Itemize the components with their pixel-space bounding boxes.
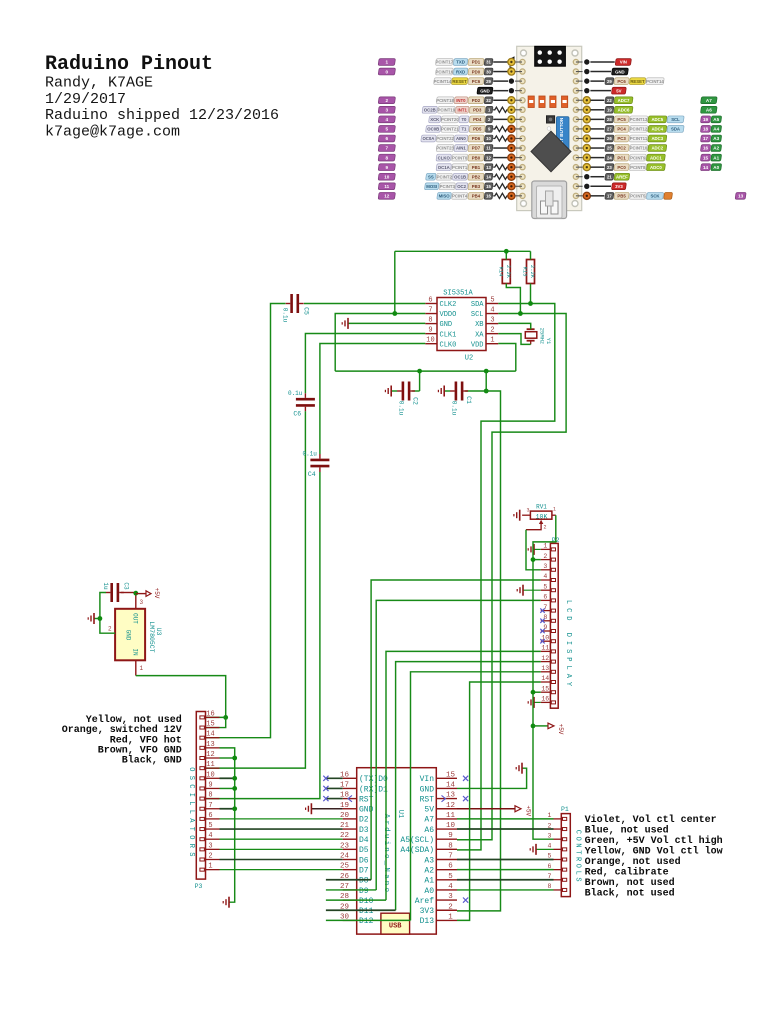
svg-text:15: 15: [206, 721, 214, 729]
svg-text:PC5: PC5: [617, 117, 626, 122]
svg-text:A0: A0: [713, 165, 719, 170]
pinout right row 13: [576, 185, 583, 187]
svg-text:USB: USB: [389, 923, 402, 931]
no-connect U1 pin 18: [326, 798, 343, 800]
svg-text:VDDO: VDDO: [440, 311, 457, 319]
svg-text:C4: C4: [308, 471, 316, 478]
svg-text:2.2K: 2.2K: [529, 265, 536, 279]
svg-text:3: 3: [448, 893, 453, 901]
svg-text:XA: XA: [475, 331, 484, 339]
capacitor C3 1u: [110, 583, 113, 602]
svg-text:14: 14: [206, 731, 214, 739]
wire P3 pin9 link: [220, 787, 235, 789]
pinout left pin number column: [378, 59, 395, 66]
svg-text:RST: RST: [420, 795, 435, 804]
svg-text:TXD: TXD: [456, 60, 465, 65]
svg-text:INT0: INT0: [456, 98, 466, 103]
svg-text:2: 2: [448, 903, 453, 911]
U1 pin 1 D13: [436, 919, 457, 921]
wire U2 VDD pin1 to rail: [498, 344, 516, 372]
pinout right row 7: [576, 128, 583, 130]
svg-text:25MHz: 25MHz: [539, 328, 546, 345]
no-connect U1 pin 16: [326, 777, 343, 779]
U1 pin 21 D3: [343, 828, 357, 830]
P3 pin 6: [206, 818, 220, 820]
svg-text:A4: A4: [713, 127, 719, 132]
svg-text:D3: D3: [359, 826, 369, 835]
no-connect P2 pin 9: [540, 629, 544, 633]
svg-text:32: 32: [486, 98, 491, 103]
svg-text:Raduino shipped 12/23/2016: Raduino shipped 12/23/2016: [45, 107, 279, 124]
svg-text:PB5: PB5: [617, 194, 626, 199]
+5V arrow at U3 OUT: [136, 593, 146, 595]
svg-text:PCINT1: PCINT1: [452, 165, 468, 170]
svg-text:13: 13: [486, 165, 491, 170]
RV1 pin3 and ground: [522, 514, 530, 516]
wire P2 pin2 link: [533, 559, 541, 561]
wire SDA net U2 pin5 to U1 A4: [457, 304, 555, 850]
svg-text:A3: A3: [424, 856, 434, 865]
wire P3 pin16 to pin15: [206, 717, 226, 727]
svg-text:U3: U3: [155, 628, 162, 636]
wire CLK2 to C5: [304, 303, 425, 305]
svg-text:4: 4: [386, 117, 389, 122]
svg-text:LM7805CT: LM7805CT: [148, 621, 155, 652]
svg-text:10K: 10K: [536, 513, 548, 520]
P3 pin 16: [206, 716, 220, 718]
svg-text:3: 3: [208, 842, 212, 850]
svg-text:Brown, not used: Brown, not used: [585, 877, 675, 889]
svg-text:21: 21: [340, 822, 350, 830]
svg-text:5V: 5V: [616, 88, 621, 93]
svg-text:LCD DISPLAY: LCD DISPLAY: [564, 600, 572, 690]
svg-text:0.1u: 0.1u: [302, 451, 317, 458]
svg-text:PC4: PC4: [617, 127, 626, 132]
wire C2 to rail: [419, 371, 421, 391]
svg-text:27: 27: [607, 127, 612, 132]
svg-text:12: 12: [206, 751, 214, 759]
RV1 wiper arrow: [539, 520, 543, 524]
pinout D13 number: [735, 192, 746, 199]
svg-text:4: 4: [548, 843, 552, 850]
ground at P2 pin1: [534, 548, 541, 550]
svg-text:4: 4: [208, 832, 212, 840]
svg-text:0.1u: 0.1u: [282, 308, 289, 323]
wire C6 to P3 pin11: [206, 411, 306, 768]
svg-text:ADC7: ADC7: [618, 98, 630, 103]
wire P3 pin4 to U1 D4: [220, 838, 343, 840]
svg-text:13: 13: [206, 741, 214, 749]
svg-text:0.1u: 0.1u: [398, 401, 405, 416]
svg-text:10: 10: [206, 771, 214, 779]
svg-text:17: 17: [607, 194, 612, 199]
no-connect P2 pin 10: [540, 639, 544, 643]
pinout left row 10: [484, 154, 493, 161]
P3 pin 1: [206, 869, 220, 871]
svg-text:PC1: PC1: [617, 155, 626, 160]
svg-text:29: 29: [486, 79, 491, 84]
junction P3 pin16: [223, 715, 228, 720]
pinout right row 8: [576, 137, 583, 139]
svg-text:12: 12: [541, 655, 549, 662]
svg-text:PCINT22: PCINT22: [436, 136, 454, 141]
svg-text:(RX)D1: (RX)D1: [359, 785, 388, 794]
svg-text:P3: P3: [195, 883, 203, 890]
svg-text:1: 1: [448, 913, 453, 921]
svg-text:9: 9: [448, 832, 453, 840]
USB block: [381, 913, 410, 934]
pinout TX RX markers: [510, 56, 515, 62]
svg-text:8: 8: [548, 883, 552, 890]
wire P2 pin11 to U1 D10: [386, 651, 541, 900]
U1 pin 9 A5(SCL): [436, 838, 457, 840]
svg-text:INT1: INT1: [458, 108, 468, 113]
svg-text:OC0B: OC0B: [427, 127, 439, 132]
svg-text:6: 6: [548, 863, 552, 870]
U1 pin 7 A3: [436, 859, 457, 861]
svg-text:SDA: SDA: [471, 301, 484, 309]
junction rail C2: [417, 369, 422, 374]
svg-text:OC2B: OC2B: [424, 108, 436, 113]
svg-text:16: 16: [486, 194, 491, 199]
U1 pin 4 A0: [436, 889, 457, 891]
U1 pin 2 3V3: [436, 909, 457, 911]
wire P3 pin12 link: [220, 757, 235, 759]
svg-text:1u: 1u: [102, 582, 109, 590]
svg-text:15: 15: [703, 155, 709, 160]
svg-text:8: 8: [428, 317, 432, 325]
U1 pin 20 D2: [343, 818, 357, 820]
svg-text:8: 8: [386, 155, 389, 160]
svg-text:31: 31: [486, 60, 491, 65]
svg-text:RV1: RV1: [536, 504, 547, 511]
svg-text:OC0A: OC0A: [422, 136, 434, 141]
P3 pin 10: [206, 777, 220, 779]
svg-text:PCINT12: PCINT12: [630, 127, 648, 132]
junction P2 pin2: [531, 557, 536, 562]
svg-text:29: 29: [607, 79, 612, 84]
svg-text:2: 2: [544, 525, 547, 531]
junction P3 pin12: [232, 756, 237, 761]
svg-text:PCINT20: PCINT20: [441, 117, 459, 122]
potentiometer RV1 10K body: [530, 511, 552, 519]
svg-text:+5V: +5V: [557, 724, 564, 735]
U2 pin 2 XA: [486, 333, 498, 335]
svg-text:PCINT18: PCINT18: [436, 98, 454, 103]
U1 pin 11 A7: [436, 818, 457, 820]
wire U1 A2 to P1 pin6: [457, 869, 554, 871]
svg-text:PCINT3: PCINT3: [440, 184, 456, 189]
svg-text:D11: D11: [359, 907, 374, 916]
svg-text:D9: D9: [359, 887, 369, 896]
wire U1 A0 to P1 pin8: [457, 889, 554, 891]
svg-text:ADC2: ADC2: [651, 146, 663, 151]
wire U1 pin28 tail: [326, 899, 386, 901]
svg-text:5V: 5V: [424, 806, 434, 815]
svg-text:9: 9: [386, 165, 389, 170]
junction SCL R14: [518, 311, 523, 316]
svg-text:A6: A6: [424, 826, 434, 835]
pinout board corner holes: [521, 50, 527, 56]
svg-text:7: 7: [386, 146, 389, 151]
svg-text:R13: R13: [522, 267, 529, 277]
P2 pin 2: [541, 559, 551, 561]
U1 pin 18 RST: [343, 798, 357, 800]
connector P1 CONTROLS body: [561, 814, 570, 897]
svg-text:Yellow, GND Vol ctl low: Yellow, GND Vol ctl low: [585, 846, 723, 858]
clock mark U1 pin 13: [442, 795, 446, 801]
U1 pin 26 D8: [343, 879, 357, 881]
svg-text:PC2: PC2: [617, 146, 626, 151]
P3 pin 14: [206, 737, 220, 739]
wire VDDO to rail corner: [335, 314, 425, 372]
svg-text:3V3: 3V3: [615, 184, 623, 189]
wire U1 pin27 tail: [326, 889, 376, 891]
junction +5V corner: [531, 724, 536, 729]
P3 pin 4: [206, 838, 220, 840]
svg-text:Blue, not used: Blue, not used: [585, 825, 669, 837]
svg-text:A2: A2: [424, 866, 434, 875]
P2 pin 3: [541, 569, 551, 571]
pinout left row 8: [484, 135, 493, 142]
svg-text:ADC5: ADC5: [651, 117, 663, 122]
P2 pin 7: [541, 610, 551, 612]
svg-text:12: 12: [384, 194, 390, 199]
svg-text:PB4: PB4: [472, 194, 481, 199]
connector P2 LCD DISPLAY body: [550, 543, 558, 708]
junction P3 pin10: [232, 776, 237, 781]
svg-text:25: 25: [607, 146, 612, 151]
pinout left row 14: [484, 192, 493, 199]
U1 pin 6 A2: [436, 869, 457, 871]
wire U1 A3 to P1 pin5: [457, 859, 554, 861]
wire rail down to VDDO row: [394, 251, 396, 313]
svg-text:24: 24: [340, 853, 350, 861]
P2 pin 13: [541, 671, 551, 673]
pinout LEDs: [528, 96, 534, 108]
P2 pin 8: [541, 620, 551, 622]
svg-text:6: 6: [208, 812, 212, 820]
svg-text:D10: D10: [359, 897, 374, 906]
U1 pin 10 A6: [436, 828, 457, 830]
U3 pin1 IN stub: [135, 660, 137, 675]
junction rail C1: [484, 369, 489, 374]
U1 pin 24 D6: [343, 859, 357, 861]
U1 pin 23 D5: [343, 848, 357, 850]
svg-text:XB: XB: [475, 321, 483, 329]
svg-text:A6: A6: [706, 108, 712, 113]
crystal Y1 25MHz: [527, 328, 535, 330]
svg-text:4: 4: [543, 573, 547, 580]
pinout right row 1: [576, 71, 583, 73]
wire U1 pin29 tail: [326, 909, 396, 911]
svg-text:PCINT19: PCINT19: [438, 108, 456, 113]
pinout left row 4: [484, 97, 493, 104]
junction P3 pin9: [232, 786, 237, 791]
capacitor C6 0.1u: [296, 398, 315, 401]
svg-text:CLK0: CLK0: [440, 341, 457, 349]
wire C1 to node: [465, 390, 486, 392]
P2 pin 11: [541, 650, 551, 652]
junction P2 pin15: [531, 690, 536, 695]
U1 pin 13 RST: [436, 798, 457, 800]
ground at U2 pin8: [347, 318, 349, 329]
svg-text:AIN0: AIN0: [456, 136, 466, 141]
svg-text:1: 1: [386, 60, 389, 65]
resistor R13 2.2K: [527, 260, 535, 284]
svg-text:6: 6: [448, 863, 453, 871]
svg-text:C5: C5: [303, 307, 310, 315]
P1 pin 5: [554, 859, 562, 861]
svg-text:RESET: RESET: [630, 79, 645, 84]
svg-text:12: 12: [446, 802, 455, 810]
P3 pin 7: [206, 808, 220, 810]
wire C4 to P3 pin8: [206, 472, 320, 799]
svg-text:PCINT16: PCINT16: [436, 69, 454, 74]
pinout left row 12: [484, 173, 493, 180]
svg-text:7: 7: [448, 853, 453, 861]
svg-text:CLK2: CLK2: [440, 301, 457, 309]
wire C3 to OUT node: [121, 592, 136, 594]
svg-text:2: 2: [386, 98, 389, 103]
svg-text:PB2: PB2: [472, 174, 481, 179]
svg-text:0.1u: 0.1u: [451, 401, 458, 416]
svg-text:11: 11: [486, 146, 491, 151]
svg-text:16: 16: [541, 696, 549, 703]
pinout right row 5: [576, 109, 583, 111]
svg-text:1: 1: [490, 337, 494, 345]
svg-text:2: 2: [490, 327, 494, 335]
svg-text:PCINT5: PCINT5: [630, 194, 646, 199]
P3 pin 13: [206, 747, 220, 749]
U1 pin 12 5V: [436, 808, 457, 810]
RV1 pin1: [552, 514, 556, 516]
svg-text:D2: D2: [359, 816, 369, 825]
svg-text:PC6: PC6: [617, 79, 626, 84]
svg-text:3: 3: [543, 563, 547, 570]
svg-text:A7: A7: [424, 816, 434, 825]
wire R13 bottom to SDA: [530, 284, 532, 304]
svg-text:Black, not used: Black, not used: [585, 888, 675, 900]
svg-text:2.2K: 2.2K: [505, 265, 512, 279]
svg-text:PD3: PD3: [473, 108, 482, 113]
no-connect P2 pin 8: [540, 619, 544, 623]
junction SDA R13: [528, 301, 533, 306]
svg-text:(TX)D0: (TX)D0: [359, 775, 388, 784]
ground at P2 pin16: [534, 701, 541, 703]
no-connect U1 pin 3 Aref: [463, 898, 468, 903]
no-connect P2 pin 7: [540, 608, 544, 612]
P3 pin 15: [206, 727, 220, 729]
U2 pin 8 GND: [425, 323, 437, 325]
P1 pin 2: [554, 828, 562, 830]
junction OUT node: [133, 591, 138, 596]
P2 pin 14: [541, 681, 551, 683]
U3 pin3 OUT stub: [135, 594, 137, 609]
svg-text:10: 10: [426, 337, 434, 345]
svg-text:16: 16: [206, 710, 214, 718]
svg-text:PD6: PD6: [472, 136, 481, 141]
pinout right row 6: [576, 118, 583, 120]
svg-text:Aref: Aref: [415, 897, 434, 906]
svg-text:U2: U2: [465, 355, 473, 363]
svg-text:GND: GND: [125, 630, 132, 641]
svg-text:D13: D13: [420, 917, 435, 926]
svg-text:PC0: PC0: [617, 165, 626, 170]
U2 pin 6 CLK2: [425, 303, 437, 305]
wire RV1 pin1 +5V net down to P1 pin3: [533, 515, 556, 839]
svg-text:6: 6: [428, 297, 432, 305]
svg-text:D7: D7: [359, 866, 369, 875]
svg-text:28: 28: [607, 117, 612, 122]
svg-text:9: 9: [208, 781, 212, 789]
svg-text:PD4: PD4: [473, 117, 482, 122]
U2 pin 5 SDA: [486, 303, 498, 305]
svg-text:17: 17: [703, 136, 709, 141]
junction P3 pin7: [232, 806, 237, 811]
svg-text:14: 14: [446, 781, 456, 789]
svg-text:6: 6: [543, 594, 547, 601]
svg-text:+5V: +5V: [525, 805, 532, 816]
U1 pin 19 GND: [343, 808, 357, 810]
Arduino Nano pinout board: [517, 46, 582, 210]
svg-text:R14: R14: [498, 267, 505, 278]
wire P2 pin4 to U1 D8: [371, 580, 541, 880]
wire U1 A7 to P1 pin1: [457, 818, 554, 820]
no-connect U1 pin 15: [463, 776, 468, 781]
junction ground node: [98, 616, 103, 621]
wire CLK0 to C4: [320, 344, 425, 455]
svg-text:Randy, K7AGE: Randy, K7AGE: [45, 75, 153, 92]
no-connect U1 pin 17: [326, 787, 343, 789]
svg-text:25: 25: [340, 863, 350, 871]
wire P2 pin6 to U1 D9: [376, 600, 541, 890]
pinout left row 9: [484, 145, 493, 152]
svg-text:Green, +5V Vol ctl high: Green, +5V Vol ctl high: [585, 835, 723, 847]
svg-text:A1: A1: [713, 155, 719, 160]
svg-text:3: 3: [140, 599, 144, 606]
wire P2 pin15 link: [533, 691, 541, 693]
svg-text:OUT: OUT: [132, 613, 139, 624]
svg-text:1/29/2017: 1/29/2017: [45, 91, 126, 108]
svg-text:RXD: RXD: [456, 69, 465, 74]
U2 pin 7 VDDO: [425, 313, 437, 315]
U1 pin 30 D12: [343, 919, 357, 921]
svg-text:GND: GND: [615, 69, 625, 74]
svg-text:PC3: PC3: [617, 136, 626, 141]
svg-text:PCINT14: PCINT14: [646, 79, 664, 84]
svg-text:C3: C3: [123, 582, 130, 590]
ground at P3 chain: [228, 897, 230, 908]
wire pullup rail to R14 R13 tops: [395, 250, 531, 252]
wire 3V3 rail: [335, 370, 516, 372]
svg-text:15: 15: [486, 184, 491, 189]
junction R14 top: [504, 249, 509, 254]
svg-text:8: 8: [448, 842, 453, 850]
P2 pin 6: [541, 599, 551, 601]
svg-text:Violet, Vol ctl center: Violet, Vol ctl center: [585, 814, 717, 826]
svg-text:11: 11: [384, 184, 389, 189]
pinout right row 12: [576, 176, 583, 178]
P1 pin 4: [554, 848, 562, 850]
svg-text:RESET: RESET: [452, 79, 467, 84]
svg-text:Raduino Pinout: Raduino Pinout: [45, 53, 213, 76]
svg-text:PCINT8: PCINT8: [630, 165, 646, 170]
no-connect U1 pin 13: [463, 796, 468, 801]
U1 pin 22 D4: [343, 838, 357, 840]
svg-text:VIN: VIN: [620, 60, 627, 65]
svg-text:VDD: VDD: [471, 341, 484, 349]
